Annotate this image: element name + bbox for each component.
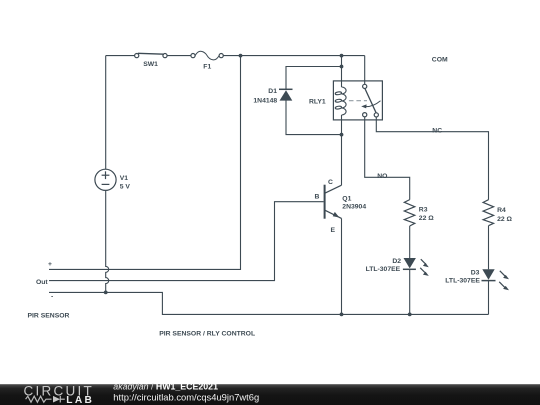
svg-text:COM: COM [432, 56, 448, 63]
svg-text:R4: R4 [497, 207, 506, 214]
svg-text:R3: R3 [419, 206, 428, 213]
svg-text:NC: NC [432, 127, 442, 134]
svg-text:RLY1: RLY1 [309, 99, 326, 106]
svg-text:LTL-307EE: LTL-307EE [445, 278, 480, 285]
svg-text:LAB: LAB [66, 395, 94, 405]
svg-text:D3: D3 [471, 269, 480, 276]
svg-text:+: + [48, 261, 52, 268]
svg-text:B: B [315, 194, 320, 201]
svg-text:-: - [51, 293, 53, 300]
svg-text:5 V: 5 V [120, 184, 131, 191]
svg-text:22 Ω: 22 Ω [419, 215, 434, 222]
svg-text:F1: F1 [203, 64, 211, 71]
svg-text:C: C [328, 179, 333, 186]
svg-text:Out: Out [36, 279, 48, 286]
svg-text:D2: D2 [392, 258, 401, 265]
svg-text:22 Ω: 22 Ω [497, 216, 512, 223]
svg-text:PIR SENSOR: PIR SENSOR [28, 312, 70, 319]
svg-text:PIR SENSOR / RLY CONTROL: PIR SENSOR / RLY CONTROL [159, 331, 255, 338]
svg-text:V1: V1 [120, 175, 129, 182]
svg-text:Q1: Q1 [342, 195, 351, 202]
svg-text:NO: NO [377, 173, 387, 180]
svg-text:E: E [331, 227, 336, 234]
svg-text:2N3904: 2N3904 [342, 203, 366, 210]
svg-text:1N4148: 1N4148 [253, 97, 277, 104]
svg-text:SW1: SW1 [143, 61, 158, 68]
svg-text:D1: D1 [268, 88, 277, 95]
svg-text:LTL-307EE: LTL-307EE [366, 266, 401, 273]
svg-text:http://circuitlab.com/cqs4u9jn: http://circuitlab.com/cqs4u9jn7wt6g [113, 391, 259, 402]
svg-text:akadylan / HW1_ECE2021: akadylan / HW1_ECE2021 [113, 382, 218, 392]
